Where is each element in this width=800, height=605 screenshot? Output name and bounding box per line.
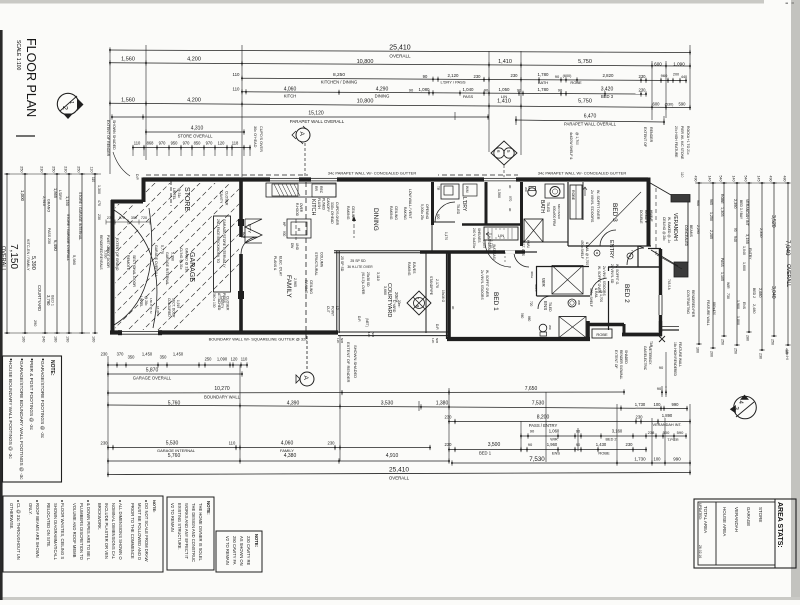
svg-text:90: 90 bbox=[451, 306, 455, 310]
SE step walls bbox=[586, 321, 590, 341]
ens basin bbox=[568, 299, 576, 307]
svg-text:BATH: BATH bbox=[538, 80, 548, 85]
svg-text:THE DESIGN AND CONSTRUC: THE DESIGN AND CONSTRUC bbox=[191, 503, 196, 562]
svg-text:CEILING @ 28c: CEILING @ 28c bbox=[662, 217, 666, 241]
svg-text:ROCKA +1 TO 21c: ROCKA +1 TO 21c bbox=[686, 126, 690, 155]
svg-text:18c HI: 18c HI bbox=[785, 350, 789, 360]
svg-text:TOTAL AREA: TOTAL AREA bbox=[703, 506, 708, 533]
svg-text:590: 590 bbox=[677, 430, 684, 435]
svg-text:PLINED: PLINED bbox=[322, 198, 326, 211]
svg-text:3,790: 3,790 bbox=[46, 295, 51, 306]
svg-text:370: 370 bbox=[117, 352, 125, 357]
kitchen sink hatch bbox=[272, 184, 298, 196]
svg-text:250: 250 bbox=[205, 357, 213, 362]
svg-text:110: 110 bbox=[680, 172, 684, 178]
svg-text:INCLUDE PLASTER OR VEN: INCLUDE PLASTER OR VEN bbox=[104, 503, 109, 559]
svg-text:GRANO: GRANO bbox=[47, 199, 51, 212]
note box 3 home owner bbox=[167, 497, 214, 570]
svg-text:20m²: 20m² bbox=[397, 300, 401, 307]
svg-text:280: 280 bbox=[746, 335, 750, 341]
svg-text:STORE / GARAGE INTERNAL: STORE / GARAGE INTERNAL bbox=[78, 192, 82, 240]
svg-text:250: 250 bbox=[734, 348, 738, 354]
svg-text:1,080: 1,080 bbox=[419, 87, 431, 92]
2nd face brickwork box bbox=[214, 216, 231, 292]
svg-text:NIB: NIB bbox=[435, 338, 439, 343]
bath vanity bbox=[545, 184, 564, 198]
svg-text:90: 90 bbox=[555, 74, 560, 79]
svg-text:200: 200 bbox=[710, 351, 714, 357]
svg-text:SCALE 1:100: SCALE 1:100 bbox=[15, 40, 21, 71]
ldry door arc bbox=[435, 202, 455, 222]
svg-text:90: 90 bbox=[528, 442, 533, 447]
svg-text:600: 600 bbox=[653, 102, 661, 107]
svg-text:90: 90 bbox=[423, 74, 428, 79]
svg-text:EXTENT OF: EXTENT OF bbox=[643, 127, 647, 148]
svg-text:1,000: 1,000 bbox=[20, 190, 25, 202]
svg-text:FLOOR WASTES, CEILING S: FLOOR WASTES, CEILING S bbox=[60, 503, 65, 559]
svg-text:500: 500 bbox=[663, 430, 670, 435]
svg-text:CL @ 31c THROUGHOUT UN: CL @ 31c THROUGHOUT UN bbox=[16, 503, 21, 560]
svg-text:WIR: WIR bbox=[550, 438, 558, 442]
svg-text:PLANS &: PLANS & bbox=[273, 256, 277, 271]
svg-text:FLUSH: FLUSH bbox=[317, 198, 321, 209]
svg-text:110: 110 bbox=[233, 72, 241, 77]
svg-text:RELOCATED ON SITE.: RELOCATED ON SITE. bbox=[46, 503, 51, 547]
svg-text:5: 5 bbox=[506, 150, 511, 153]
svg-text:600x900 FRM: 600x900 FRM bbox=[552, 206, 556, 226]
svg-text:5,390: 5,390 bbox=[171, 252, 175, 261]
svg-text:TILED: TILED bbox=[546, 202, 550, 213]
svg-text:NOTE:: NOTE: bbox=[152, 500, 157, 512]
hall shelves dashes bbox=[504, 252, 506, 264]
svg-text:SOFF: SOFF bbox=[534, 284, 538, 292]
garage west wall bbox=[111, 200, 115, 333]
svg-text:540: 540 bbox=[719, 176, 723, 182]
svg-text:100: 100 bbox=[654, 402, 662, 407]
right dim cluster verticals bbox=[695, 182, 790, 184]
svg-text:HP: HP bbox=[282, 222, 286, 226]
svg-text:MIR OVER: MIR OVER bbox=[557, 204, 561, 220]
svg-text:743.0 A: 743.0 A bbox=[667, 279, 671, 291]
svg-text:1,450: 1,450 bbox=[173, 352, 184, 357]
svg-text:7,040: 7,040 bbox=[784, 240, 791, 256]
svg-text:2,350: 2,350 bbox=[759, 228, 763, 238]
svg-text:3,500: 3,500 bbox=[488, 442, 501, 448]
svg-text:90: 90 bbox=[508, 208, 512, 212]
svg-text:STORE: STORE bbox=[183, 187, 190, 211]
svg-text:D.P.: D.P. bbox=[357, 316, 361, 322]
svg-text:1,900: 1,900 bbox=[736, 300, 740, 309]
svg-text:110: 110 bbox=[90, 166, 94, 172]
svg-text:STANDPIPE: STANDPIPE bbox=[429, 276, 433, 296]
svg-text:250 CAVITY FA: 250 CAVITY FA bbox=[232, 536, 237, 565]
kitchen bench bbox=[266, 183, 336, 197]
svg-text:5,770: 5,770 bbox=[160, 245, 164, 254]
svg-text:5,750: 5,750 bbox=[578, 99, 592, 105]
svg-text:2ND FACE BRICKWORK TO: 2ND FACE BRICKWORK TO bbox=[216, 219, 220, 263]
bed2 east window gap bbox=[659, 295, 663, 315]
svg-text:200: 200 bbox=[673, 73, 679, 77]
bottom verticals bbox=[107, 356, 109, 474]
svg-text:NOMINAL DIMENSIONS CAL: NOMINAL DIMENSIONS CAL bbox=[111, 503, 116, 560]
svg-text:SHOWN SHADED: SHOWN SHADED bbox=[112, 120, 116, 150]
bottom wall garage bbox=[110, 330, 338, 334]
ldry trough bbox=[441, 184, 459, 199]
ldry south wall thick bbox=[462, 223, 523, 226]
svg-text:COLUMN: COLUMN bbox=[320, 252, 324, 268]
svg-text:1,560: 1,560 bbox=[121, 57, 135, 63]
svg-text:SHELVES: SHELVES bbox=[477, 228, 481, 242]
svg-text:2,170: 2,170 bbox=[435, 279, 439, 288]
svg-text:36 H-LITE OVER: 36 H-LITE OVER bbox=[347, 265, 373, 269]
svg-text:A: A bbox=[302, 376, 309, 381]
tap cross bbox=[659, 336, 665, 342]
bed1 west wall bbox=[447, 252, 451, 339]
svg-text:5,390: 5,390 bbox=[30, 256, 36, 270]
svg-text:CL'NG @ 31c: CL'NG @ 31c bbox=[179, 248, 183, 270]
svg-text:NOTE:: NOTE: bbox=[254, 534, 259, 547]
svg-text:10,270: 10,270 bbox=[214, 386, 230, 392]
title underline bbox=[16, 135, 35, 137]
svg-text:540: 540 bbox=[744, 176, 748, 182]
svg-text:WC: WC bbox=[548, 325, 552, 331]
svg-text:W/M: W/M bbox=[465, 186, 469, 193]
svg-text:PIER & POST FOOTINGS @ -3c: PIER & POST FOOTINGS @ -3c bbox=[29, 361, 34, 431]
marker 6/5 double (M3) bbox=[491, 141, 517, 165]
bath wc bbox=[528, 188, 536, 196]
svg-text:LINTEL: LINTEL bbox=[139, 296, 143, 307]
svg-text:990: 990 bbox=[673, 457, 681, 462]
svg-text:1,780: 1,780 bbox=[538, 87, 550, 92]
svg-text:NIB: NIB bbox=[371, 332, 375, 337]
svg-text:490: 490 bbox=[694, 176, 698, 182]
svg-text:ROBE: ROBE bbox=[598, 451, 610, 456]
svg-text:1,450: 1,450 bbox=[142, 352, 153, 357]
left of plan curve leader bbox=[113, 152, 130, 176]
svg-text:CEILING: CEILING bbox=[394, 206, 398, 220]
svg-text:18c HIGH RENDERED: 18c HIGH RENDERED bbox=[673, 342, 677, 377]
svg-text:BED 3: BED 3 bbox=[601, 94, 614, 99]
svg-text:940: 940 bbox=[733, 236, 737, 242]
svg-text:@ 31c: @ 31c bbox=[177, 188, 181, 198]
svg-text:25,410: 25,410 bbox=[389, 45, 411, 52]
svg-text:140: 140 bbox=[708, 176, 712, 182]
svg-text:230: 230 bbox=[101, 441, 109, 446]
svg-text:1,430: 1,430 bbox=[596, 442, 607, 447]
store lintel dashed bbox=[170, 181, 172, 206]
svg-text:900: 900 bbox=[282, 231, 286, 237]
svg-text:3,530: 3,530 bbox=[381, 401, 394, 407]
svg-text:230 CAVITY RE: 230 CAVITY RE bbox=[246, 536, 251, 565]
svg-text:SHOWN SHADED: SHOWN SHADED bbox=[353, 345, 358, 378]
svg-text:ELEC. O'LAY: ELEC. O'LAY bbox=[279, 256, 283, 277]
svg-text:RAKING: RAKING bbox=[403, 207, 407, 220]
svg-text:230: 230 bbox=[511, 73, 519, 78]
svg-text:120: 120 bbox=[367, 332, 371, 337]
svg-text:230: 230 bbox=[639, 88, 647, 93]
svg-text:W- SOFFIT OVER: W- SOFFIT OVER bbox=[485, 270, 489, 298]
svg-text:4,200: 4,200 bbox=[187, 98, 201, 104]
svg-text:L'DRY: L'DRY bbox=[58, 190, 62, 201]
svg-text:GARAGE: GARAGE bbox=[746, 507, 751, 526]
feature wall stub bbox=[660, 329, 679, 331]
svg-text:25x38 SD: 25x38 SD bbox=[366, 272, 370, 287]
svg-text:KITCH: KITCH bbox=[284, 94, 297, 99]
svg-text:1,655: 1,655 bbox=[482, 240, 486, 248]
svg-text:UND: UND bbox=[295, 243, 299, 251]
svg-text:1,300: 1,300 bbox=[97, 185, 101, 194]
svg-text:860: 860 bbox=[527, 316, 531, 322]
svg-text:KITC-EN / FAMILY: KITC-EN / FAMILY bbox=[26, 239, 30, 271]
svg-text:5,980: 5,980 bbox=[72, 255, 77, 266]
courtyard west wall double bbox=[336, 251, 338, 333]
svg-text:HOUSE AREA: HOUSE AREA bbox=[722, 507, 727, 536]
svg-text:ENS: ENS bbox=[543, 301, 548, 310]
svg-text:990: 990 bbox=[672, 402, 680, 407]
svg-text:90: 90 bbox=[558, 88, 563, 93]
svg-text:NOTE:: NOTE: bbox=[206, 501, 211, 515]
bed2 west wall bbox=[608, 267, 610, 330]
svg-text:RENDER S/GWALL: RENDER S/GWALL bbox=[619, 350, 623, 380]
svg-text:970: 970 bbox=[206, 141, 214, 146]
area stats header divider bbox=[774, 499, 776, 568]
lin closet bbox=[484, 227, 518, 240]
svg-text:90: 90 bbox=[484, 88, 489, 93]
svg-text:STORE OVERALL: STORE OVERALL bbox=[178, 134, 214, 139]
svg-text:590: 590 bbox=[679, 102, 687, 107]
svg-text:30c O'HEAD: 30c O'HEAD bbox=[253, 126, 257, 148]
svg-text:(NET): (NET) bbox=[365, 318, 369, 327]
svg-text:CONCEALED: CONCEALED bbox=[684, 225, 688, 247]
svg-text:||: || bbox=[791, 2, 795, 4]
svg-text:1,960: 1,960 bbox=[547, 442, 558, 447]
svg-text:& DOWN PIPES ARE TO BE L: & DOWN PIPES ARE TO BE L bbox=[86, 503, 91, 561]
svg-text:4,060: 4,060 bbox=[284, 87, 297, 93]
svg-text:HANDRAIL: HANDRAIL bbox=[487, 236, 491, 252]
svg-text:RENDER: RENDER bbox=[649, 127, 653, 143]
svg-text:GARAGE OVERALL: GARAGE OVERALL bbox=[154, 245, 158, 277]
svg-text:P.WET COR: P.WET COR bbox=[106, 235, 110, 253]
svg-text:CUT: CUT bbox=[326, 306, 330, 313]
svg-text:6: 6 bbox=[496, 150, 501, 153]
svg-text:160: 160 bbox=[696, 347, 700, 353]
svg-text:LOW WALL / VENT: LOW WALL / VENT bbox=[408, 189, 412, 219]
svg-text:970: 970 bbox=[159, 141, 167, 146]
svg-text:COLOURB'D: COLOURB'D bbox=[167, 298, 171, 317]
svg-text:WIR: WIR bbox=[541, 278, 546, 287]
svg-text:V2 TO REMAIN: V2 TO REMAIN bbox=[225, 536, 230, 565]
svg-text:GARAGE/STORE FOOTINGS @ -3c: GARAGE/STORE FOOTINGS @ -3c bbox=[40, 361, 45, 439]
svg-text:CLOSER: CLOSER bbox=[226, 296, 230, 311]
svg-text:ROBE: ROBE bbox=[570, 80, 582, 85]
svg-text:BED 3 / BAY: BED 3 / BAY bbox=[739, 200, 743, 220]
svg-text:SHOWN DIAGRAMMATICALL: SHOWN DIAGRAMMATICALL bbox=[53, 503, 58, 561]
svg-text:110: 110 bbox=[91, 177, 95, 182]
entry-verandah corner bbox=[648, 248, 661, 250]
ldry east wall thick bbox=[485, 182, 488, 225]
svg-text:2,120: 2,120 bbox=[448, 73, 460, 78]
bed3 door arc bbox=[600, 230, 616, 246]
svg-text:OTHERWISE.: OTHERWISE. bbox=[9, 503, 14, 529]
svg-text:450w SHELF: 450w SHELF bbox=[580, 240, 584, 259]
note box 1 footings bbox=[3, 356, 62, 482]
svg-text:1,865: 1,865 bbox=[53, 188, 58, 199]
svg-text:W- SOFFIT O.: W- SOFFIT O. bbox=[615, 264, 619, 285]
svg-text:DINING: DINING bbox=[372, 208, 379, 231]
hall wall thin continue bbox=[525, 251, 537, 253]
svg-text:18 @8c: 18 @8c bbox=[156, 306, 160, 317]
bath basin bbox=[550, 187, 560, 197]
svg-text:4,060: 4,060 bbox=[281, 441, 294, 447]
svg-text:250: 250 bbox=[77, 166, 81, 172]
svg-text:FEATURE WALL: FEATURE WALL bbox=[706, 300, 710, 326]
svg-text:BED 2: BED 2 bbox=[606, 438, 617, 442]
svg-text:3,110: 3,110 bbox=[376, 272, 380, 281]
svg-text:ROBE: ROBE bbox=[571, 190, 575, 201]
svg-text:160: 160 bbox=[22, 336, 26, 342]
svg-text:950: 950 bbox=[171, 141, 179, 146]
garage-house dividing wall bbox=[239, 181, 243, 237]
svg-text:2,295: 2,295 bbox=[696, 225, 700, 234]
garage door arcs bbox=[114, 208, 157, 328]
entry east wall jog bbox=[637, 246, 639, 267]
svg-text:D.P.: D.P. bbox=[435, 324, 439, 330]
svg-text:SHADED: SHADED bbox=[624, 350, 628, 364]
svg-text:490: 490 bbox=[769, 176, 773, 182]
svg-text:& RAIL: & RAIL bbox=[594, 288, 598, 298]
svg-text:238: 238 bbox=[648, 430, 655, 435]
svg-text:8,250: 8,250 bbox=[333, 72, 345, 78]
svg-text:7,530: 7,530 bbox=[529, 456, 545, 463]
svg-text:DO NOT SCALE FROM DRAW: DO NOT SCALE FROM DRAW bbox=[144, 503, 149, 561]
svg-text:ENTRY: ENTRY bbox=[608, 240, 614, 259]
svg-text:GARAGE/STORE INTERNALLY: GARAGE/STORE INTERNALLY bbox=[222, 219, 226, 268]
svg-text:EXTENT OF RENDER: EXTENT OF RENDER bbox=[346, 342, 351, 382]
svg-text:R-HOOD: R-HOOD bbox=[295, 203, 299, 217]
ens door arc bbox=[538, 296, 551, 309]
bed1 north wall thick bbox=[420, 250, 525, 254]
svg-text:& RAIL @ 1,700: & RAIL @ 1,700 bbox=[585, 242, 589, 265]
svg-text:FAMILY: FAMILY bbox=[285, 275, 292, 298]
svg-text:GARAGE/STORE BOUNDARY WALL FOO: GARAGE/STORE BOUNDARY WALL FOOTINGS @ -3… bbox=[19, 361, 24, 480]
svg-text:FLOOR PLAN: FLOOR PLAN bbox=[24, 38, 38, 117]
svg-text:190: 190 bbox=[66, 336, 70, 342]
svg-text:|||: ||| bbox=[785, 2, 789, 5]
svg-text:VERANDAH: VERANDAH bbox=[734, 507, 739, 532]
svg-text:34c PARAPET WALL W/- CONCEALED: 34c PARAPET WALL W/- CONCEALED GUTTER bbox=[538, 171, 627, 176]
dining-hall wall lower bbox=[431, 225, 433, 251]
svg-text:3,155: 3,155 bbox=[745, 234, 750, 245]
page bottom edge bbox=[0, 597, 800, 600]
svg-text:EXTENT OF GRANO: EXTENT OF GRANO bbox=[115, 238, 119, 271]
svg-text:RAKING: RAKING bbox=[407, 262, 411, 276]
courtyard north wall bbox=[334, 250, 420, 252]
svg-text:2x VINYL S'DOORS: 2x VINYL S'DOORS bbox=[480, 270, 484, 300]
hall east wall thick bbox=[520, 182, 523, 246]
svg-text:6,470: 6,470 bbox=[584, 114, 597, 120]
svg-text:PRIOR TO THE COMMENCE: PRIOR TO THE COMMENCE bbox=[130, 503, 135, 559]
svg-text:6,490: 6,490 bbox=[53, 240, 58, 251]
svg-text:2x VINYL SD: 2x VINYL SD bbox=[610, 264, 614, 284]
svg-text:SECT. DOOR: SECT. DOOR bbox=[172, 298, 176, 318]
svg-text:BEAMS: BEAMS bbox=[689, 225, 693, 238]
svg-text:GARAGE INTERNAL: GARAGE INTERNAL bbox=[165, 252, 169, 285]
svg-text:5,760: 5,760 bbox=[168, 453, 181, 459]
svg-text:19x16 G: 19x16 G bbox=[441, 290, 445, 303]
svg-text:KITCH: KITCH bbox=[310, 199, 316, 216]
svg-text:820: 820 bbox=[436, 214, 440, 220]
svg-text:1: 1 bbox=[68, 101, 74, 104]
svg-text:CLOSER: CLOSER bbox=[225, 191, 229, 206]
svg-text:DINING: DINING bbox=[375, 94, 390, 99]
fridge recess bbox=[312, 184, 336, 197]
svg-text:230: 230 bbox=[40, 166, 44, 172]
svg-text:BED 1: BED 1 bbox=[51, 295, 55, 306]
svg-text:C'YARD: C'YARD bbox=[392, 300, 396, 313]
svg-text:HWAVE: HWAVE bbox=[649, 210, 653, 223]
svg-text:D.P.: D.P. bbox=[135, 174, 139, 181]
svg-text:400w: 400w bbox=[530, 271, 534, 279]
svg-text:480: 480 bbox=[783, 176, 787, 182]
svg-text:CEILING: CEILING bbox=[309, 280, 313, 294]
svg-text:230: 230 bbox=[639, 74, 647, 79]
svg-text:25 SP SD: 25 SP SD bbox=[350, 259, 366, 263]
svg-text:WORKS AND ANY EFFECT IT: WORKS AND ANY EFFECT IT bbox=[184, 503, 189, 560]
svg-text:4: 4 bbox=[737, 401, 743, 405]
svg-text:720: 720 bbox=[141, 216, 147, 220]
svg-text:240: 240 bbox=[42, 336, 46, 342]
svg-text:REMOTE: REMOTE bbox=[126, 255, 130, 271]
svg-text:PLUMBERS DISCRETION TO: PLUMBERS DISCRETION TO bbox=[79, 503, 84, 561]
svg-text:5,750: 5,750 bbox=[578, 59, 592, 65]
svg-text:VERANDAH: VERANDAH bbox=[672, 213, 678, 241]
svg-text:34c PARAPET WALL W/- CONCEALED: 34c PARAPET WALL W/- CONCEALED GUTTER bbox=[328, 171, 417, 176]
svg-text:PASS / ENTRY: PASS / ENTRY bbox=[529, 423, 558, 428]
bath east wall bbox=[567, 182, 569, 246]
svg-text:25 SP SD: 25 SP SD bbox=[340, 256, 344, 272]
ldry wm bbox=[463, 184, 477, 196]
svg-text:90: 90 bbox=[508, 185, 512, 189]
bed2 east wall thick bbox=[659, 249, 662, 332]
parapet dashed line above top wall bbox=[146, 174, 645, 176]
svg-text:1,090: 1,090 bbox=[217, 357, 228, 362]
svg-text:1,170: 1,170 bbox=[444, 232, 448, 240]
svg-text:(NAT GAS): (NAT GAS) bbox=[492, 244, 496, 260]
svg-text:2: 2 bbox=[61, 106, 68, 110]
robe bed3 bbox=[570, 185, 582, 219]
svg-text:360 x 130: 360 x 130 bbox=[212, 293, 216, 308]
svg-text:230: 230 bbox=[101, 352, 109, 357]
svg-text:GRANO @ 31c: GRANO @ 31c bbox=[185, 248, 189, 272]
svg-text:3,660: 3,660 bbox=[383, 286, 387, 295]
svg-text:250: 250 bbox=[20, 166, 24, 172]
svg-text:15,120: 15,120 bbox=[308, 111, 324, 117]
svg-text:2,965: 2,965 bbox=[293, 278, 297, 287]
svg-text:120: 120 bbox=[231, 357, 239, 362]
svg-text:850: 850 bbox=[194, 141, 202, 146]
svg-text:RAKING: RAKING bbox=[389, 206, 393, 220]
svg-text:470: 470 bbox=[97, 200, 101, 206]
page left scan bar bbox=[0, 30, 3, 600]
entry door arc bbox=[627, 248, 644, 265]
store west wall bbox=[142, 178, 146, 203]
svg-text:REC: REC bbox=[319, 186, 323, 194]
svg-text:1,560: 1,560 bbox=[497, 189, 501, 198]
svg-text:350: 350 bbox=[131, 216, 137, 220]
svg-text:WIR: WIR bbox=[726, 282, 730, 289]
svg-text:TF: TF bbox=[630, 250, 634, 254]
section line bottom + marker A (M5) bbox=[306, 336, 308, 371]
